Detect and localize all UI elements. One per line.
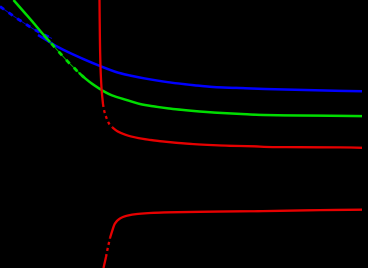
red upper branch: horizontal segment [113, 128, 363, 148]
red lower branch: dashed knee segment [106, 238, 110, 257]
green dashed mid segment [44, 35, 84, 77]
blue dashed approximation curve [0, 7, 52, 39]
blue thin asymptote line (left) [0, 7, 52, 39]
red lower branch: horizontal segment [110, 210, 362, 238]
green solid curve (right segment) [79, 73, 362, 116]
green thin underlying line [14, 0, 363, 116]
red upper branch: dashed knee segment [103, 104, 113, 128]
green solid curve (upper-left segment) [14, 0, 51, 42]
red lower branch: steep segment [104, 257, 107, 268]
blue solid curve [38, 35, 362, 91]
red upper branch: steep segment [100, 0, 104, 104]
